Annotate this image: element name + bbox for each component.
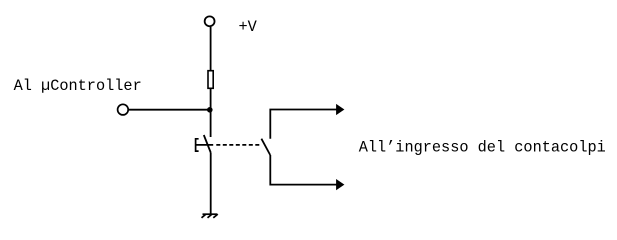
wire from resistor to node A — [210, 89, 212, 110]
svg-text:+V: +V — [239, 18, 258, 36]
resistor R1 — [208, 71, 213, 89]
svg-text:All’ingresso del contacolpi: All’ingresso del contacolpi — [359, 138, 606, 156]
terminal Al µController — [118, 104, 129, 115]
switch S1 blade — [204, 135, 211, 153]
node A junction dot — [207, 107, 213, 113]
svg-text:Al µController: Al µController — [14, 77, 142, 95]
terminal +V — [205, 16, 215, 26]
switch S1 actuator bracket — [196, 139, 199, 151]
wire from switch S1 to ground — [210, 153, 212, 215]
arrow to contacolpi upper — [336, 104, 344, 115]
mechanical link dashed line — [216, 144, 259, 146]
ground — [202, 214, 218, 218]
switch S2 blade — [261, 139, 270, 155]
wire from node A to switch S1 — [210, 110, 212, 137]
wire from +V terminal to resistor — [210, 27, 212, 71]
arrow to contacolpi lower — [336, 179, 344, 190]
switch S2 lower wire — [270, 155, 337, 185]
switch S2 upper wire — [270, 110, 337, 139]
switch S1 actuator shaft — [196, 144, 214, 146]
wire from µController terminal to node A — [129, 109, 211, 111]
